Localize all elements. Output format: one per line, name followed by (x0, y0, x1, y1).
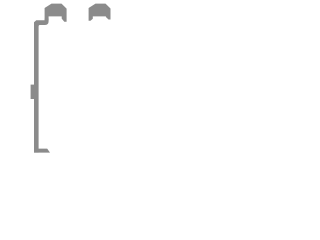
wire: long vertical pole (34, 22, 39, 152)
left arch (staple shape with two legs) (45, 4, 67, 22)
right arch (staple shape with two clipped legs) (89, 4, 111, 21)
tab: small rectangular lug on left side of pole (31, 85, 35, 99)
foot: short horizontal base at bottom of pole (34, 149, 50, 153)
wire: top S-bend elbow joining pole to left arch leg (34, 19, 49, 27)
